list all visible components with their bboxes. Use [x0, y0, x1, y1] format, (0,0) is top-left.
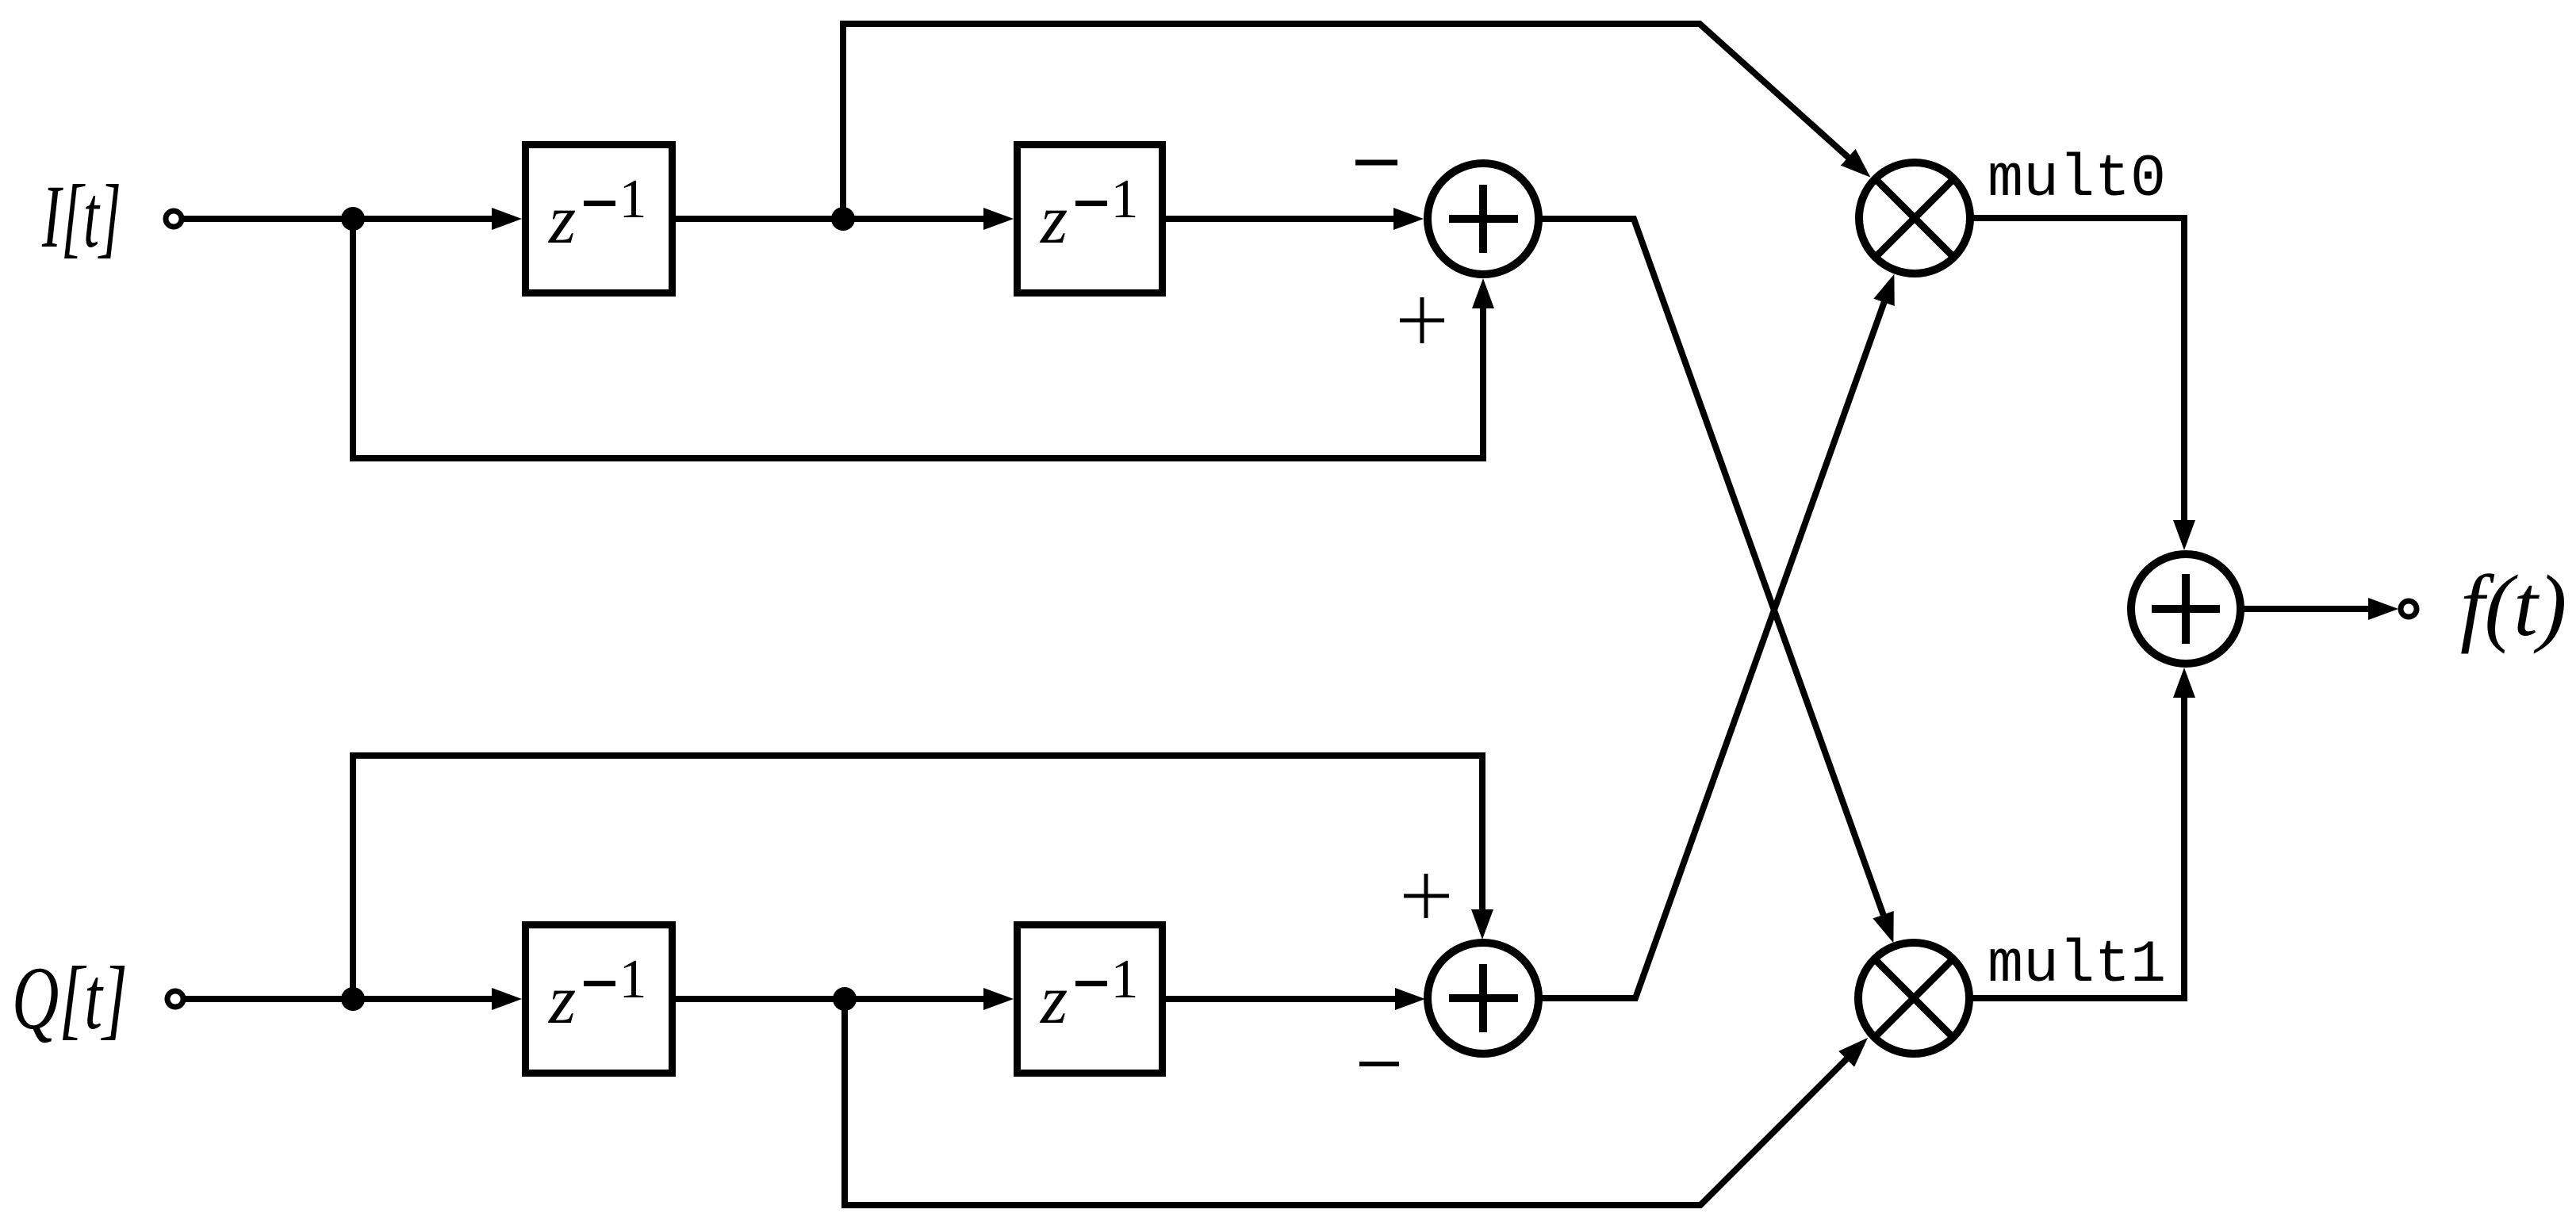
label plus at S1 — [1400, 319, 1444, 323]
svg-text:z: z — [548, 182, 576, 258]
delay block Z4 — [1018, 925, 1163, 1073]
wire Z2 to summer S1 — [1166, 216, 1416, 222]
wire input Q to node C — [186, 996, 353, 1002]
label plus at S2 — [1404, 894, 1449, 898]
node A (I input junction) — [341, 207, 365, 231]
svg-text:z: z — [1040, 962, 1068, 1039]
wire Z4 to summer S2 — [1166, 996, 1417, 1002]
wire I feedforward: node A down, right, up into S1 — [353, 219, 1483, 458]
input terminal I[t] — [166, 211, 182, 227]
svg-text:1: 1 — [619, 169, 647, 230]
summer S2 — [1428, 943, 1539, 1054]
svg-text:mult0: mult0 — [1988, 146, 2166, 213]
label minus at S1 — [1355, 160, 1397, 166]
svg-text:f(t): f(t) — [2460, 557, 2566, 654]
wire node B to Z2 — [843, 216, 1006, 222]
wire I delayed tap: node B up, right, diagonal into M0 — [843, 24, 1865, 219]
wire input I to node A — [184, 216, 353, 222]
label minus at S2 — [1359, 1062, 1399, 1066]
svg-text:I[t]: I[t] — [41, 167, 121, 266]
wire S3 to output terminal — [2239, 606, 2390, 612]
summer S1 — [1428, 163, 1539, 274]
wire node C to Z3 — [353, 996, 514, 1002]
svg-text:Q[t]: Q[t] — [12, 949, 128, 1048]
multiplier M1 — [1858, 943, 1969, 1054]
wire S2 output to M0 — [1539, 281, 1892, 998]
summer S3 (output) — [2131, 554, 2241, 664]
wire Q feedforward: node C up, right, down into S2 — [353, 756, 1482, 999]
node D (after Z3) — [833, 987, 857, 1011]
delay block Z2 — [1018, 145, 1163, 293]
wire M1 output right then up into S3 — [1969, 675, 2184, 998]
wire S1 output to M1 — [1539, 219, 1891, 936]
delay block Z3 — [526, 925, 673, 1073]
svg-text:z: z — [548, 962, 576, 1039]
svg-text:1: 1 — [1111, 949, 1139, 1010]
svg-text:1: 1 — [1111, 169, 1139, 230]
svg-text:z: z — [1040, 182, 1068, 258]
svg-text:mult1: mult1 — [1988, 932, 2166, 999]
wire M0 output right then down into S3 — [1970, 218, 2184, 542]
node C (Q input junction) — [341, 987, 365, 1011]
wire node A to Z1 — [353, 216, 514, 222]
wire node D to Z4 — [845, 996, 1006, 1002]
multiplier M0 — [1859, 163, 1970, 274]
wire Z1 to node B — [676, 216, 843, 222]
input terminal Q[t] — [167, 991, 183, 1007]
delay block Z1 — [526, 145, 673, 293]
node B (after Z1) — [831, 207, 855, 231]
output terminal f(t) — [2401, 601, 2417, 617]
wire Q delayed tap: node D down, right, diagonal into M1 — [845, 999, 1862, 1205]
svg-text:1: 1 — [619, 949, 647, 1010]
wire Z3 to node D — [676, 996, 845, 1002]
